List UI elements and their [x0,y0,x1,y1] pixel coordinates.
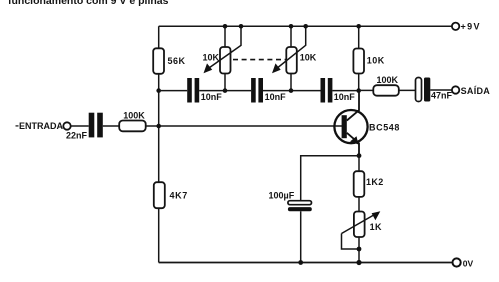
node pot P2 top [289,24,294,29]
svg-text:10K: 10K [300,53,317,63]
node I (emitter branch on 0V rail) [356,260,361,265]
wire left column (rail to 56K, 56K to node, node to input node, input node to 4K7, 4K7 to bottom rail) [158,26,160,262]
potentiometer P1 wiper arrow to rail [208,26,242,69]
wire row segment C2 to C3 [263,90,321,92]
node B (pot P1 bottom) [223,88,228,93]
svg-text:100K: 100K [123,111,145,121]
wire C5 to R4 [103,125,119,127]
svg-text:+9V: +9V [461,22,481,32]
resistor R6 1K2 [354,171,365,197]
wire +9V top rail [159,25,452,27]
node H (P3 bottom junction) [357,247,362,252]
wire RC row left segment [159,90,188,92]
wire C6 to bottom rail [300,211,302,262]
potentiometer P1 10K top lead [224,26,226,47]
wire R6 to P3 [358,197,360,212]
svg-text:47nF: 47nF [431,91,453,101]
P3 wiper arrow [342,214,376,234]
capacitor C5 22nF [89,113,95,138]
wire row segment C3 to collector node [332,90,358,92]
potentiometer P3 1K body [354,212,365,238]
node pot P1 top [223,24,228,29]
pot P1 bottom lead [224,74,226,91]
svg-text:56K: 56K [168,56,186,66]
wire P3 bottom lead [358,237,360,263]
capacitor C3 10nF [321,78,326,103]
svg-text:10nF: 10nF [334,92,356,102]
wire node D to output resistor [359,89,374,91]
svg-text:BC548: BC548 [369,123,400,133]
wire bypass branch down to C6 [300,155,302,201]
wire 0V bottom rail [159,262,453,264]
resistor R3 100K (output) [373,85,399,96]
svg-text:4K7: 4K7 [170,190,188,200]
wire P3 wiper tied to bottom terminal [342,234,360,250]
svg-text:100µF: 100µF [269,190,295,200]
svg-text:10nF: 10nF [265,92,287,102]
node G (bypass on 0V rail) [298,260,303,265]
svg-text:22nF: 22nF [66,131,88,141]
resistor R2 10K [353,49,364,74]
resistor R1 56K [153,48,164,74]
potentiometer P2 wiper arrow to rail [276,26,306,69]
terminal SAIDA [452,86,459,93]
potentiometer P2 10K top lead [290,26,292,47]
terminal +9V [452,23,459,30]
potentiometer P1 10K body [220,47,231,74]
wire row segment C1 to C2 [199,90,251,92]
wire C4 to SAIDA terminal [430,89,452,91]
terminal 0V [453,258,461,266]
node C (pot P2 bottom) [289,88,294,93]
capacitor C4 47nF [416,78,422,102]
dashed gang line between P1 and P2 [233,59,286,61]
capacitor C2 10nF [251,78,256,103]
R2 bottom lead [358,74,360,91]
svg-text:10K: 10K [367,56,385,66]
svg-text:SAÍDA: SAÍDA [461,86,491,96]
node R2 top on rail [356,24,361,29]
resistor R5 4K7 [154,182,165,208]
node D (collector / output node) [356,88,361,93]
node F (emitter junction) [357,153,362,158]
wire emitter to bypass branch [301,155,359,157]
pot P2 bottom lead [290,74,292,91]
node E (input junction on left column) [156,124,161,129]
node pot P1 wiper on rail [239,24,244,29]
svg-text:1K2: 1K2 [366,177,384,187]
Q1 collector lead [347,91,359,121]
svg-text:10K: 10K [203,53,220,63]
capacitor C6 100uF (electrolytic) [288,201,312,205]
Q1 emitter lead with arrow [347,133,359,156]
svg-text:funcionamento com 9 V e pilhas: funcionamento com 9 V e pilhas [8,0,169,7]
node A (56K bottom / RC row left) [156,88,161,93]
wire emitter to R6 [358,156,360,172]
svg-text:100K: 100K [377,75,399,85]
wire ENTRADA to C5 [71,125,89,127]
transistor Q1 BC548 [334,110,367,143]
svg-text:1K: 1K [370,222,382,232]
svg-text:10nF: 10nF [201,92,223,102]
resistor R4 100K (input) [119,121,146,132]
potentiometer P2 10K body [286,47,297,74]
svg-text:ENTRADA: ENTRADA [19,121,63,131]
wire R3 to C4 [399,89,416,91]
node pot P2 wiper on rail [303,24,308,29]
wire R4 to base line [146,125,344,127]
capacitor C1 10nF [187,78,192,103]
svg-text:0V: 0V [463,258,474,268]
resistor R2 10K top lead [358,26,360,48]
